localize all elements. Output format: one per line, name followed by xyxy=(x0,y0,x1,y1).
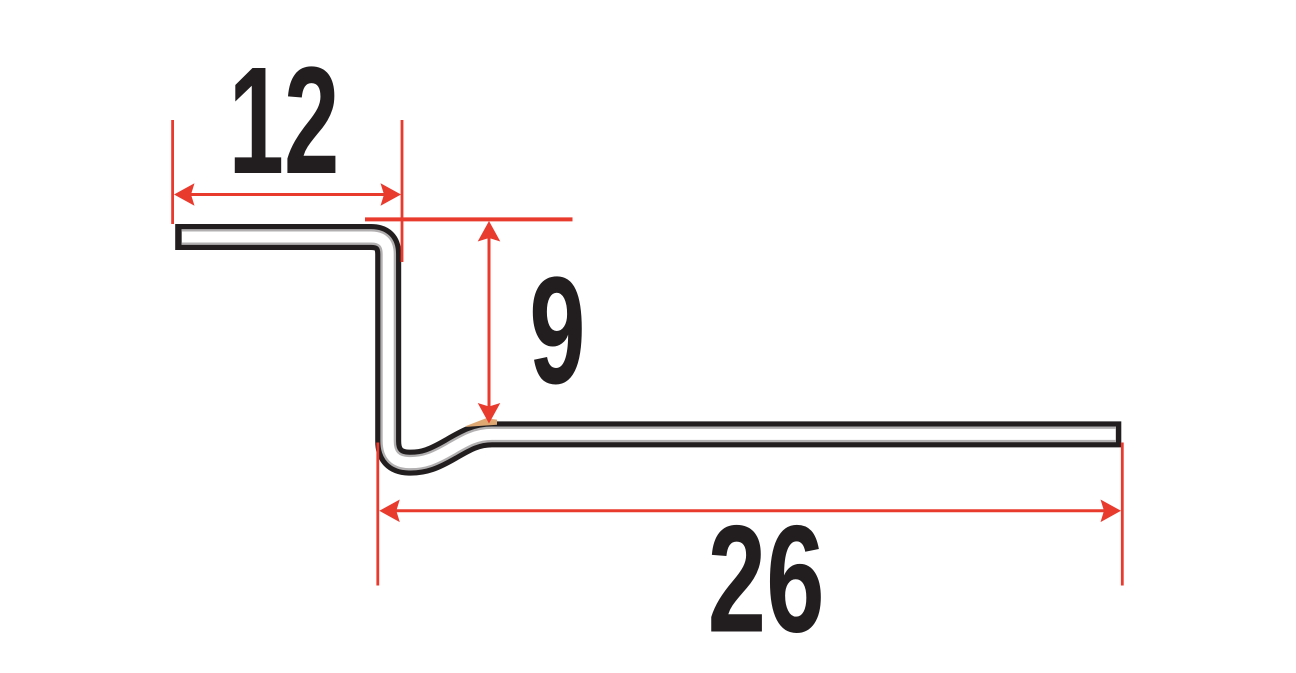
dimension 26: right extension line xyxy=(1121,443,1124,586)
profile sheet white core xyxy=(182,237,1116,463)
dimension 9: bottom arrowhead xyxy=(478,403,501,424)
dimension 9: top reference line xyxy=(365,217,573,221)
dimension 26: dimension line xyxy=(396,509,1104,512)
tan highlight wedge at 9-arrow tip xyxy=(466,418,497,427)
dimension 9: label text xyxy=(529,246,585,416)
dimension 12: left extension line xyxy=(171,120,174,224)
svg-text:26: 26 xyxy=(708,493,825,664)
dimension 9: vertical dimension line xyxy=(488,238,491,408)
dimension 12: right arrowhead xyxy=(381,183,402,206)
svg-text:9: 9 xyxy=(529,246,585,416)
dimension 12: label text xyxy=(229,36,340,207)
dimension 12: dimension line xyxy=(190,193,385,196)
profile sheet outer outline xyxy=(175,237,1121,463)
dimension 26: left extension line xyxy=(376,443,379,586)
svg-text:12: 12 xyxy=(229,36,340,207)
profile sheet gray inner band xyxy=(182,237,1117,463)
dimension 26: right arrowhead xyxy=(1101,500,1122,523)
dimension 9: top arrowhead xyxy=(478,221,501,242)
dimension 26: left arrowhead xyxy=(379,500,400,523)
dimension 12: left arrowhead xyxy=(174,183,195,206)
dimension 26: label text xyxy=(708,493,825,664)
dimension 12: right extension line xyxy=(401,120,404,262)
